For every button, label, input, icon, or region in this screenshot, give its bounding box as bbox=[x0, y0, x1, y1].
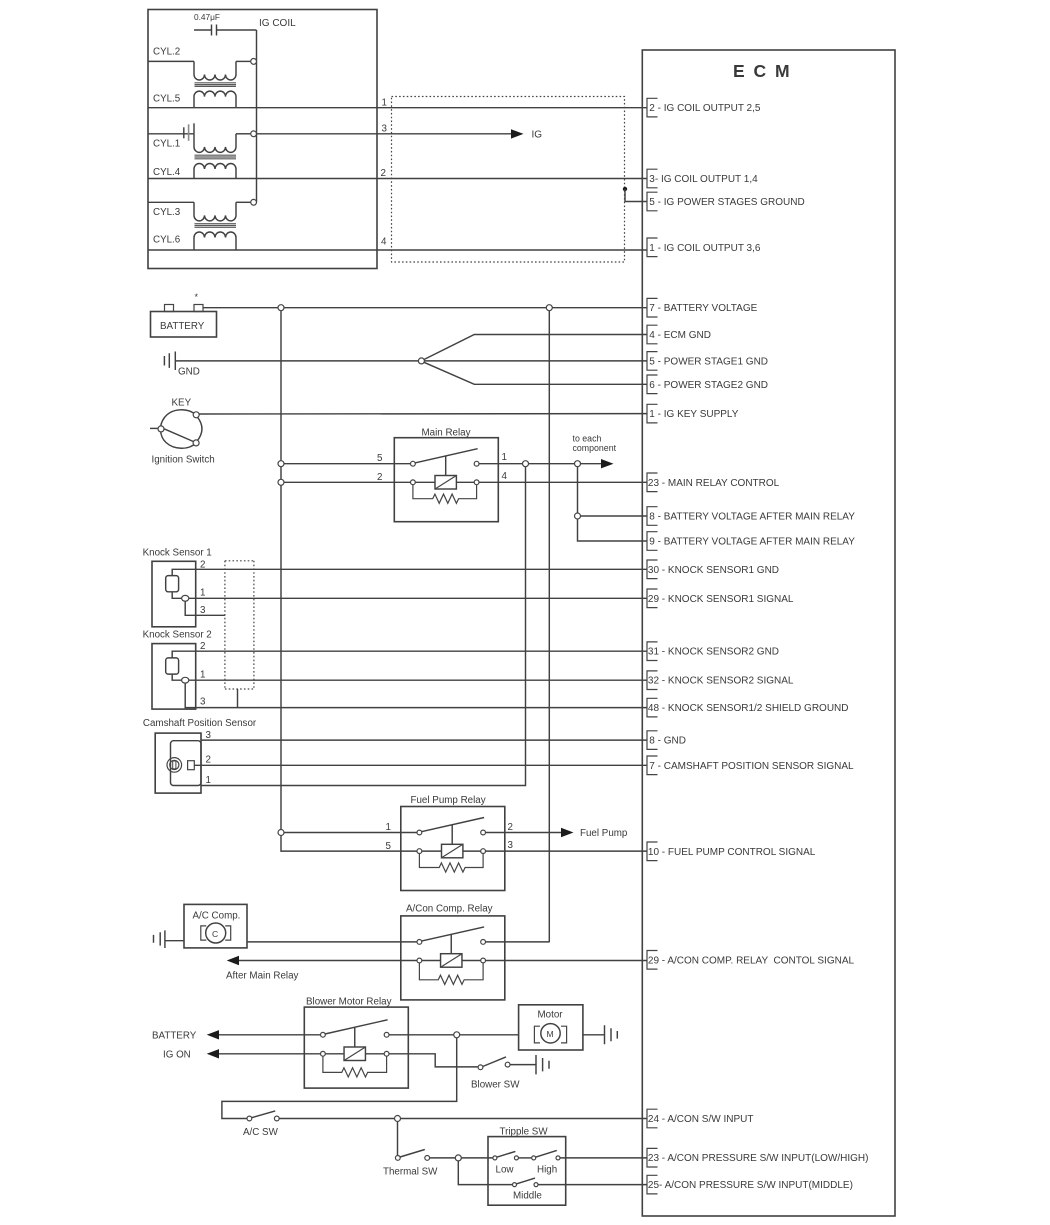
wire fuel pump relay pin 2 to fuel pump bbox=[486, 832, 562, 834]
relay Blower Motor Relay resistor bbox=[323, 1056, 387, 1077]
svg-text:Middle: Middle bbox=[513, 1191, 542, 1202]
relay Blower Motor Relay coil bbox=[344, 1047, 365, 1061]
svg-text:3: 3 bbox=[382, 124, 388, 135]
wire main relay pin 1 output bbox=[479, 463, 601, 465]
wire fuel pump relay pin 1 feed bbox=[281, 832, 417, 834]
relay A/Con Comp. Relay resistor bbox=[419, 963, 483, 985]
svg-text:A/C Comp.: A/C Comp. bbox=[193, 911, 241, 922]
switch Low bbox=[493, 1151, 519, 1160]
ECM pin 1 - IG KEY SUPPLY bbox=[647, 404, 739, 423]
camshaft sensor rotor (double circle with slot) bbox=[167, 758, 182, 773]
ECM pin 4 - ECM GND bbox=[647, 325, 711, 344]
svg-text:CYL.4: CYL.4 bbox=[153, 167, 181, 178]
relay A/Con Comp. Relay switch blade bbox=[421, 927, 484, 941]
battery B+ bbox=[151, 292, 217, 337]
ECM pin 2 - IG COIL OUTPUT 2,5 bbox=[647, 98, 761, 117]
svg-text:KEY: KEY bbox=[172, 398, 192, 409]
svg-text:8 - BATTERY VOLTAGE AFTER MAIN: 8 - BATTERY VOLTAGE AFTER MAIN RELAY bbox=[649, 512, 855, 523]
A/C compressor clutch symbol bbox=[201, 923, 231, 943]
node junction battery line / left bus bbox=[278, 305, 284, 311]
Knock Sensor 2 connector node bbox=[182, 677, 189, 683]
ground symbol at blower switch bbox=[536, 1055, 549, 1074]
wire primary to bus bbox=[236, 201, 250, 203]
capacitor C 0.47uF bbox=[194, 25, 257, 36]
ECM pin 29 - KNOCK SENSOR1 SIGNAL bbox=[647, 589, 794, 608]
svg-text:CYL.5: CYL.5 bbox=[153, 93, 181, 104]
ignition switch bbox=[150, 410, 202, 448]
svg-text:3- IG COIL OUTPUT 1,4: 3- IG COIL OUTPUT 1,4 bbox=[649, 174, 758, 185]
svg-text:to each: to each bbox=[573, 434, 602, 444]
wire CYL.1 lead with capacitor marks bbox=[148, 133, 194, 135]
switch Middle bbox=[513, 1178, 539, 1187]
ECM pin 24 - A/CON S/W INPUT bbox=[647, 1109, 753, 1128]
svg-text:Knock Sensor 1: Knock Sensor 1 bbox=[143, 548, 212, 559]
node ground fan-out junction bbox=[418, 358, 424, 364]
wire A/Con relay switch to battery bus (right) bbox=[486, 941, 550, 943]
wire vertical bus from battery voltage (left) bbox=[280, 308, 282, 852]
svg-text:5: 5 bbox=[386, 841, 392, 852]
ECM pin 6 - POWER STAGE2 GND bbox=[647, 375, 768, 394]
ECM pin 48 - KNOCK SENSOR1/2 SHIELD GROUND bbox=[647, 698, 849, 717]
wire blower output junction down and across to A/C SW bbox=[222, 1038, 457, 1119]
relay A/Con Comp. Relay contacts bbox=[417, 940, 422, 945]
relay Main Relay contacts bbox=[411, 461, 416, 466]
svg-text:23 - MAIN RELAY CONTROL: 23 - MAIN RELAY CONTROL bbox=[648, 478, 780, 489]
relay Fuel Pump Relay switch blade bbox=[421, 818, 484, 832]
svg-text:IG: IG bbox=[532, 130, 543, 141]
wire ignition switch to ECM pin 1 IG KEY SUPPLY bbox=[199, 413, 647, 415]
relay Blower Motor Relay contacts bbox=[321, 1032, 326, 1037]
ground symbol GND bbox=[164, 352, 199, 378]
node junction blower output / A-C switch drop bbox=[454, 1032, 460, 1038]
Knock Sensor 2 pin 3 wire bbox=[185, 683, 647, 708]
A/C compressor box bbox=[184, 904, 247, 948]
relay Fuel Pump Relay coil bbox=[442, 844, 463, 858]
svg-text:5 - POWER STAGE1 GND: 5 - POWER STAGE1 GND bbox=[649, 356, 768, 367]
ECM pin 8 - BATTERY VOLTAGE AFTER MAIN RELAY bbox=[647, 507, 855, 526]
Knock Sensor 1 element bbox=[166, 576, 179, 592]
svg-text:2 - IG COIL OUTPUT 2,5: 2 - IG COIL OUTPUT 2,5 bbox=[649, 103, 761, 114]
svg-text:32 - KNOCK SENSOR2 SIGNAL: 32 - KNOCK SENSOR2 SIGNAL bbox=[648, 676, 794, 687]
camshaft pin 2 signal wire to ECM pin 7 bbox=[194, 764, 647, 766]
camshaft pin 3 wire to ECM GND pin 8 bbox=[201, 739, 647, 741]
wire fuel pump relay pin 5 feed (left bus end) bbox=[281, 850, 417, 852]
svg-text:0.47μF: 0.47μF bbox=[194, 12, 220, 22]
ECM pin 8 - GND bbox=[647, 731, 686, 750]
wire blower relay switch to BATTERY arrow bbox=[219, 1034, 321, 1036]
svg-text:Blower Motor Relay: Blower Motor Relay bbox=[306, 997, 392, 1008]
wire battery voltage to ECM pin 7 bbox=[203, 307, 647, 309]
wire shield to ECM pin 5 bbox=[625, 189, 647, 202]
ECM pin 23 - A/CON PRESSURE S/W INPUT(LOW/HIGH) bbox=[647, 1148, 868, 1167]
arrow Fuel Pump bbox=[561, 828, 574, 837]
Knock Sensor 1 pin 3 wire bbox=[185, 601, 225, 615]
svg-text:Tripple SW: Tripple SW bbox=[500, 1127, 549, 1138]
Knock Sensor 2 element bbox=[166, 658, 179, 674]
Knock Sensor 2 box bbox=[152, 644, 196, 710]
svg-text:1: 1 bbox=[200, 588, 205, 599]
wire A/C SW to ECM pin 24 bbox=[279, 1118, 647, 1120]
IG coil common supply bus wire bbox=[256, 30, 258, 202]
svg-text:7 - BATTERY VOLTAGE: 7 - BATTERY VOLTAGE bbox=[649, 303, 757, 314]
wire CYL.6 bottom lead to ECM pin 1 (line 4) bbox=[148, 249, 647, 251]
wire chassis ground feed bbox=[175, 360, 418, 362]
camshaft position sensor outer box bbox=[155, 733, 201, 793]
ignition coil core bbox=[195, 83, 237, 87]
node junction main relay output / pin8-9 bus bbox=[575, 461, 581, 467]
svg-text:Main Relay: Main Relay bbox=[422, 428, 471, 439]
svg-text:2: 2 bbox=[381, 168, 386, 179]
svg-text:4 - ECM GND: 4 - ECM GND bbox=[649, 330, 711, 341]
relay Main Relay box bbox=[394, 438, 498, 522]
camshaft position sensor inner body bbox=[171, 741, 202, 786]
ground symbol at A/C compressor bbox=[154, 930, 165, 948]
wire A/C compressor to A/Con relay switch bbox=[247, 941, 417, 943]
svg-text:A/Con Comp. Relay: A/Con Comp. Relay bbox=[406, 904, 493, 915]
svg-text:5: 5 bbox=[377, 453, 383, 464]
arrow BATTERY (left) bbox=[207, 1030, 219, 1039]
svg-text:BATTERY: BATTERY bbox=[152, 1030, 197, 1041]
wire primary to bus bbox=[236, 60, 250, 62]
svg-text:2: 2 bbox=[508, 822, 513, 833]
svg-text:CYL.3: CYL.3 bbox=[153, 207, 181, 218]
ignition coil primary winding CYL.1 bbox=[194, 134, 236, 153]
wire Low to High bbox=[518, 1157, 531, 1159]
blower motor M symbol bbox=[534, 1024, 566, 1043]
arrow IG ON (left) bbox=[207, 1049, 219, 1058]
node junction A/C SW line / thermal drop bbox=[395, 1116, 401, 1122]
Tripple SW box bbox=[488, 1137, 566, 1206]
relay Fuel Pump Relay box bbox=[401, 807, 505, 891]
ECM pin 25- A/CON PRESSURE S/W INPUT(MIDDLE) bbox=[647, 1175, 853, 1194]
wire blower relay coil to IG ON arrow bbox=[219, 1053, 321, 1055]
svg-text:IG COIL: IG COIL bbox=[259, 18, 296, 29]
arrow IG bbox=[511, 129, 524, 138]
Knock Sensor 1 pin 1 wire bbox=[172, 592, 647, 599]
svg-text:Low: Low bbox=[496, 1165, 515, 1176]
wire CYL.2 lead bbox=[148, 60, 194, 62]
svg-text:CYL.6: CYL.6 bbox=[153, 234, 181, 245]
svg-text:1: 1 bbox=[382, 97, 387, 108]
svg-text:IG ON: IG ON bbox=[163, 1049, 191, 1060]
svg-text:1: 1 bbox=[206, 775, 211, 786]
wire CYL.3 lead bbox=[148, 201, 194, 203]
svg-text:4: 4 bbox=[502, 471, 508, 482]
ECM pin 3- IG COIL OUTPUT 1,4 bbox=[647, 169, 758, 188]
svg-text:Ignition Switch: Ignition Switch bbox=[152, 455, 215, 466]
svg-text:M: M bbox=[547, 1029, 554, 1039]
relay Blower Motor Relay switch blade bbox=[325, 1020, 388, 1034]
relay Blower Motor Relay box bbox=[304, 1007, 408, 1088]
ground symbol at motor bbox=[605, 1025, 618, 1044]
node junction main relay output / camshaft bus bbox=[523, 461, 529, 467]
arrow to each component bbox=[601, 459, 614, 468]
ignition coil secondary winding CYL.6 bbox=[194, 232, 236, 250]
svg-text:2: 2 bbox=[206, 755, 211, 766]
svg-text:Knock Sensor 2: Knock Sensor 2 bbox=[143, 630, 212, 641]
svg-text:After Main Relay: After Main Relay bbox=[226, 971, 299, 982]
svg-text:9 - BATTERY VOLTAGE AFTER MAIN: 9 - BATTERY VOLTAGE AFTER MAIN RELAY bbox=[649, 537, 855, 548]
wire CYL.5 bottom lead to ECM pin 2 (line 1) bbox=[148, 107, 647, 109]
ECM pin 10 - FUEL PUMP CONTROL SIGNAL bbox=[647, 842, 816, 861]
arrow After Main Relay (left) bbox=[227, 956, 239, 965]
Knock Sensor 1 connector node bbox=[182, 595, 189, 601]
svg-text:E C M: E C M bbox=[733, 61, 792, 81]
Knock Sensor 1 pin 2 wire bbox=[172, 569, 647, 575]
wire junction to Low switch bbox=[461, 1157, 493, 1159]
ECM pin 5 - POWER STAGE1 GND bbox=[647, 352, 768, 371]
wire to ECM pin 5 POWER STAGE1 GND bbox=[424, 360, 647, 362]
ignition coil secondary winding CYL.5 bbox=[194, 91, 236, 108]
ECM pin 7 - BATTERY VOLTAGE bbox=[647, 298, 758, 317]
svg-text:1 - IG COIL OUTPUT 3,6: 1 - IG COIL OUTPUT 3,6 bbox=[649, 243, 761, 254]
dashed harness boundary box bbox=[392, 97, 625, 263]
wire bus to camshaft sensor pin 1 bbox=[201, 467, 526, 786]
relay Main Relay coil bbox=[435, 476, 456, 490]
svg-text:CYL.1: CYL.1 bbox=[153, 138, 180, 149]
wire vertical bus from battery voltage (right) to A/Con relay bbox=[548, 308, 550, 943]
svg-text:23 - A/CON PRESSURE S/W INPUT(: 23 - A/CON PRESSURE S/W INPUT(LOW/HIGH) bbox=[648, 1153, 869, 1164]
wire blower relay switch output to motor bbox=[389, 1034, 519, 1036]
wire IG output (line 3) from bus junction bbox=[256, 133, 511, 135]
svg-text:Thermal SW: Thermal SW bbox=[383, 1167, 438, 1178]
svg-text:A/C SW: A/C SW bbox=[243, 1127, 279, 1138]
ignition coil core bbox=[195, 155, 237, 159]
wire motor to ground bbox=[583, 1034, 605, 1036]
svg-text:48 - KNOCK SENSOR1/2 SHIELD GR: 48 - KNOCK SENSOR1/2 SHIELD GROUND bbox=[648, 703, 849, 714]
ECM pin 30 - KNOCK SENSOR1 GND bbox=[647, 560, 779, 579]
relay Main Relay switch blade bbox=[415, 449, 478, 463]
svg-text:Fuel Pump: Fuel Pump bbox=[580, 828, 628, 839]
wire primary to bus bbox=[236, 133, 250, 135]
wire to ECM pin 4 ECM GND bbox=[424, 335, 647, 360]
ignition coil core bbox=[195, 224, 237, 228]
svg-text:GND: GND bbox=[178, 367, 200, 378]
wire ground to A/C compressor bbox=[165, 940, 184, 942]
svg-text:5 - IG POWER STAGES GROUND: 5 - IG POWER STAGES GROUND bbox=[649, 197, 804, 208]
ECM pin 7 - CAMSHAFT POSITION SENSOR SIGNAL bbox=[647, 756, 854, 775]
ECM pin 29 - A/CON COMP. RELAY &#160;CONTOL SIGNAL bbox=[647, 951, 855, 970]
svg-text:2: 2 bbox=[200, 560, 205, 571]
svg-text:2: 2 bbox=[200, 641, 205, 652]
junction dot on harness shield bbox=[623, 187, 627, 191]
svg-text:1: 1 bbox=[200, 670, 205, 681]
junction node on IG coil bus bbox=[251, 199, 257, 205]
relay Fuel Pump Relay resistor bbox=[419, 853, 483, 872]
ECM pin 5 - IG POWER STAGES GROUND bbox=[647, 192, 805, 211]
wire drop to Thermal SW bbox=[397, 1122, 399, 1156]
svg-text:30 - KNOCK SENSOR1 GND: 30 - KNOCK SENSOR1 GND bbox=[648, 565, 779, 576]
wire A/Con relay coil to ECM pin 29 bbox=[486, 960, 648, 962]
ignition coil secondary winding CYL.4 bbox=[194, 164, 236, 179]
svg-text:2: 2 bbox=[377, 472, 382, 483]
svg-text:Camshaft Position Sensor: Camshaft Position Sensor bbox=[143, 718, 257, 729]
relay A/Con Comp. Relay coil bbox=[441, 954, 462, 968]
wire shield drain to pin 48 line bbox=[237, 689, 239, 708]
wire Thermal SW to junction bbox=[430, 1157, 456, 1159]
svg-text:29 - A/CON COMP. RELAY CONTOL: 29 - A/CON COMP. RELAY CONTOL SIGNAL bbox=[648, 955, 855, 966]
ignition coil primary winding CYL.2 bbox=[194, 61, 236, 80]
svg-text:3: 3 bbox=[200, 605, 206, 616]
svg-text:8 - GND: 8 - GND bbox=[649, 736, 686, 747]
wire blower switch to ground bbox=[510, 1064, 536, 1066]
svg-text:component: component bbox=[573, 443, 617, 453]
switch High bbox=[532, 1150, 560, 1160]
ECM pin 1 - IG COIL OUTPUT 3,6 bbox=[647, 238, 761, 257]
wire CYL.4 bottom lead to ECM pin 3 (line 2) bbox=[148, 178, 647, 180]
svg-text:29 - KNOCK SENSOR1 SIGNAL: 29 - KNOCK SENSOR1 SIGNAL bbox=[648, 594, 794, 605]
ECM pin 9 - BATTERY VOLTAGE AFTER MAIN RELAY bbox=[647, 532, 855, 551]
relay Fuel Pump Relay contacts bbox=[417, 830, 422, 835]
wire main relay pin 5 feed bbox=[281, 463, 411, 465]
svg-text:24 - A/CON S/W INPUT: 24 - A/CON S/W INPUT bbox=[648, 1114, 754, 1125]
svg-text:3: 3 bbox=[508, 840, 514, 851]
svg-text:31 - KNOCK SENSOR2 GND: 31 - KNOCK SENSOR2 GND bbox=[648, 647, 779, 658]
switch Blower SW bbox=[478, 1057, 510, 1070]
svg-text:*: * bbox=[195, 292, 199, 302]
svg-text:Motor: Motor bbox=[538, 1010, 564, 1021]
wire High to ECM pin 23 bbox=[560, 1157, 647, 1159]
wire Middle to ECM pin 25 bbox=[538, 1184, 647, 1186]
wire to ECM pin 6 POWER STAGE2 GND bbox=[424, 362, 647, 384]
IG coil unit box bbox=[148, 10, 377, 269]
wire bus to ECM pins 8 and 9 bbox=[578, 467, 648, 541]
Knock Sensor 2 pin 1 wire bbox=[172, 674, 647, 680]
svg-text:4: 4 bbox=[381, 237, 387, 248]
svg-text:25- A/CON PRESSURE S/W INPUT(M: 25- A/CON PRESSURE S/W INPUT(MIDDLE) bbox=[648, 1180, 853, 1191]
switch A/C SW bbox=[247, 1111, 279, 1121]
ignition coil primary winding CYL.3 bbox=[194, 202, 236, 221]
ECM pin 31 - KNOCK SENSOR2 GND bbox=[647, 642, 779, 661]
svg-text:Fuel Pump Relay: Fuel Pump Relay bbox=[411, 795, 486, 806]
node junction thermal / middle branch bbox=[455, 1155, 461, 1161]
relay A/Con Comp. Relay box bbox=[401, 916, 505, 1000]
Knock Sensor 1 box bbox=[152, 561, 196, 627]
node junction battery line / right bus bbox=[546, 305, 552, 311]
relay Main Relay resistor bbox=[413, 485, 477, 504]
camshaft sensor pickup element bbox=[188, 761, 195, 770]
wire blower relay coil to blower switch bbox=[389, 1054, 478, 1067]
svg-text:1 - IG KEY SUPPLY: 1 - IG KEY SUPPLY bbox=[649, 409, 738, 420]
svg-text:1: 1 bbox=[386, 822, 391, 833]
wire fuel pump relay pin 3 to ECM pin 10 bbox=[486, 850, 648, 852]
ECM module box bbox=[642, 50, 895, 1216]
ECM pin 23 - MAIN RELAY CONTROL bbox=[647, 473, 780, 492]
switch Thermal SW bbox=[395, 1150, 429, 1161]
node junction pin 8 branch bbox=[575, 513, 581, 519]
svg-text:BATTERY: BATTERY bbox=[160, 321, 205, 332]
ECM pin 32 - KNOCK SENSOR2 SIGNAL bbox=[647, 671, 794, 690]
blower motor box bbox=[519, 1005, 583, 1050]
wire middle branch bbox=[458, 1161, 512, 1185]
shield dashed box for knock sensors bbox=[225, 561, 254, 689]
svg-text:7 - CAMSHAFT POSITION SENSOR S: 7 - CAMSHAFT POSITION SENSOR SIGNAL bbox=[649, 761, 854, 772]
svg-text:1: 1 bbox=[502, 452, 507, 463]
wire A/Con relay coil left to After Main Relay arrow bbox=[239, 960, 417, 962]
svg-text:CYL.2: CYL.2 bbox=[153, 47, 180, 58]
junction node on IG coil bus bbox=[251, 59, 257, 65]
svg-text:6 - POWER STAGE2 GND: 6 - POWER STAGE2 GND bbox=[649, 380, 768, 391]
svg-text:3: 3 bbox=[200, 697, 206, 708]
svg-text:10 - FUEL PUMP CONTROL SIGNAL: 10 - FUEL PUMP CONTROL SIGNAL bbox=[648, 847, 816, 858]
svg-text:C: C bbox=[212, 929, 218, 939]
Knock Sensor 2 pin 2 wire bbox=[172, 651, 647, 658]
wire main relay pin 2 / ECM pin 23 control bbox=[281, 481, 647, 483]
svg-text:High: High bbox=[537, 1165, 557, 1176]
svg-text:3: 3 bbox=[206, 730, 212, 741]
junction node on IG coil bus bbox=[251, 131, 257, 137]
svg-text:Blower SW: Blower SW bbox=[471, 1080, 520, 1091]
